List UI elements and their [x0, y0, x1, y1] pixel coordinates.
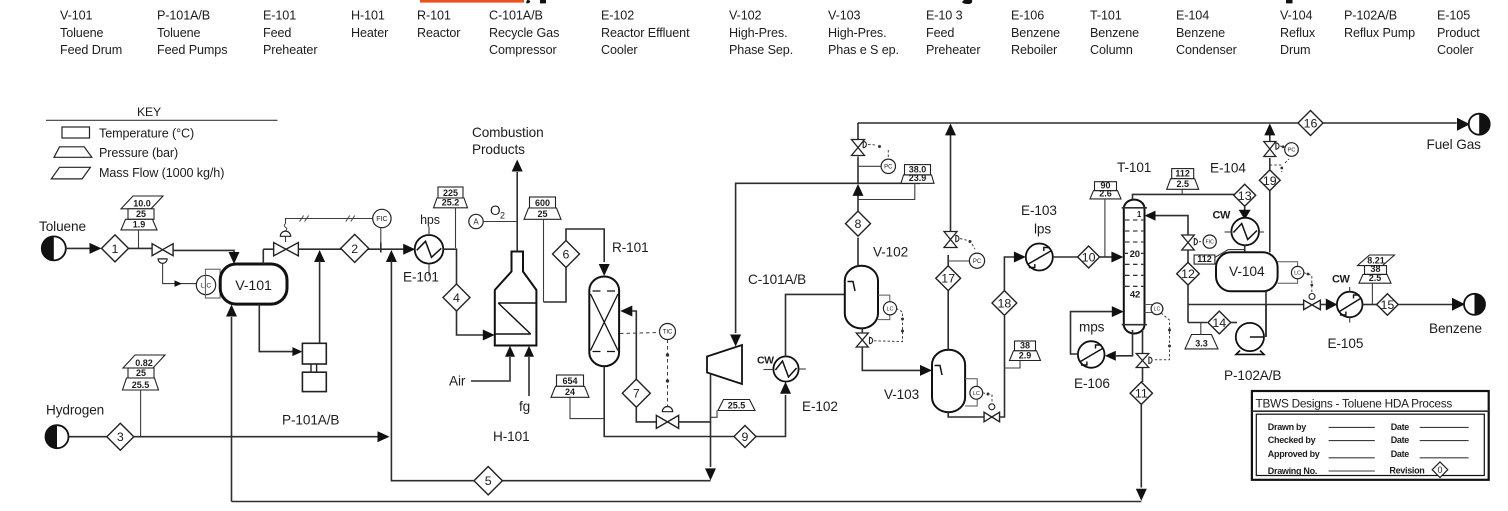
label E-106 — [1074, 376, 1110, 391]
arrow into V-101 bottom — [226, 305, 237, 317]
wire pump discharge P-102 — [1265, 305, 1267, 338]
stream diamond 5 — [474, 467, 502, 495]
svg-text:24: 24 — [565, 387, 575, 397]
svg-text:E-104: E-104 — [1210, 161, 1246, 176]
svg-text:2.5: 2.5 — [1176, 179, 1189, 189]
arrow into E-104 — [1239, 210, 1251, 220]
svg-text:Toluene: Toluene — [157, 26, 201, 40]
wire reflux riser — [1187, 250, 1189, 263]
wire compressor outlet — [710, 374, 712, 468]
svg-text:Reboiler: Reboiler — [1011, 43, 1057, 57]
svg-text:1: 1 — [112, 242, 119, 256]
cropped hyperlink fragment (orange underline) — [420, 0, 524, 3]
svg-text:Preheater: Preheater — [263, 43, 317, 57]
key pressure label — [99, 146, 178, 160]
stream diamond 15 — [1377, 294, 1399, 316]
pump P-101B — [302, 372, 326, 391]
pump P-102A/B — [1236, 323, 1264, 355]
wire stream18 to E-103 — [1004, 257, 1014, 291]
arrow H2 into recycle join — [378, 431, 390, 442]
svg-text:17: 17 — [941, 272, 955, 286]
wire reflux pump suction — [1188, 322, 1207, 324]
wire E-103 outlet — [1053, 256, 1078, 258]
key title — [137, 105, 161, 119]
tray number 20 — [1128, 248, 1141, 260]
svg-text:Recycle Gas: Recycle Gas — [489, 26, 559, 40]
svg-text:Benzene: Benzene — [1429, 321, 1482, 336]
svg-text:E-101: E-101 — [263, 9, 296, 23]
wire E-101 outlet — [443, 249, 456, 284]
svg-text:C-101A/B: C-101A/B — [748, 272, 806, 287]
flag E-101 temperature — [438, 187, 463, 198]
stream diamond 16 — [1298, 111, 1323, 136]
wire T-101 to E-106 — [1116, 330, 1133, 356]
wire recycle stream 5 line — [503, 480, 711, 482]
flag T-101 feed pressure — [1090, 189, 1121, 199]
svg-text:Toluene: Toluene — [60, 26, 104, 40]
svg-text:3: 3 — [117, 430, 124, 444]
wire stream10 to T-101 — [1100, 256, 1113, 258]
stream diamond 4 — [443, 284, 470, 311]
svg-text:Temperature (°C): Temperature (°C) — [99, 127, 194, 141]
flag reflux temperature 112 — [1194, 254, 1215, 264]
arrow into R-101 top — [599, 264, 610, 276]
label Benzene — [1429, 321, 1482, 336]
svg-text:Reflux Pump: Reflux Pump — [1344, 26, 1415, 40]
svg-text:8: 8 — [855, 217, 862, 231]
wire E-102 cw stubs — [764, 368, 806, 371]
wire stack — [516, 172, 518, 252]
actuator V-102 bottoms valve — [870, 337, 873, 343]
svg-text:Reactor: Reactor — [417, 26, 460, 40]
wire reflux up — [1156, 216, 1189, 235]
arrow recycle join — [386, 250, 397, 262]
label V-104 — [1229, 264, 1265, 279]
wire flag38.0 stem — [858, 183, 915, 199]
actuator T101 bottoms valve — [1149, 357, 1152, 363]
flag recycle pressure — [718, 400, 755, 411]
wire PC V102 tap — [858, 165, 881, 167]
wire E-104 cw stubs — [1225, 231, 1264, 233]
signal FIC valve squiggle — [284, 224, 287, 231]
svg-text:CW: CW — [1332, 274, 1351, 286]
svg-text:Date: Date — [1391, 449, 1410, 459]
reactor R-101 top dashes — [593, 290, 616, 292]
svg-text:Preheater: Preheater — [926, 43, 980, 57]
arrow into H-101 — [483, 330, 495, 341]
svg-text:2: 2 — [351, 242, 358, 256]
svg-text:2: 2 — [500, 211, 505, 221]
svg-text:PC: PC — [973, 259, 982, 265]
key temperature label — [99, 127, 194, 141]
wire air line — [471, 357, 510, 381]
arrow into P-101 — [292, 347, 302, 356]
svg-text:V-102: V-102 — [729, 9, 762, 23]
svg-text:Feed: Feed — [263, 26, 291, 40]
svg-text:hps: hps — [420, 213, 440, 227]
exchanger E-101 — [415, 235, 444, 264]
svg-text:V-103: V-103 — [828, 9, 861, 23]
wire pump discharge — [319, 261, 321, 344]
pump connector — [311, 364, 317, 372]
label H-101 — [493, 429, 530, 444]
benzene outlet symbol — [1464, 294, 1485, 315]
svg-text:E-106: E-106 — [1074, 376, 1110, 391]
controller TIC — [660, 324, 676, 340]
svg-text:42: 42 — [1130, 289, 1140, 300]
svg-text:V-103: V-103 — [884, 387, 919, 402]
controller LC V-103 — [970, 386, 983, 399]
svg-text:O: O — [490, 203, 500, 218]
wire overhead line — [1133, 194, 1245, 199]
svg-text:16: 16 — [1304, 116, 1318, 130]
controller LC T-101 — [1151, 303, 1163, 315]
wire A to stack — [483, 221, 517, 223]
wire V103 PC valve up — [950, 135, 952, 232]
label V-103 — [884, 387, 919, 402]
signal LC-103 to valve — [983, 393, 992, 403]
svg-text:10.0: 10.0 — [133, 199, 151, 209]
wire stream9 to E-102 — [756, 395, 786, 437]
title block title — [1256, 397, 1453, 411]
svg-text:14: 14 — [1212, 316, 1226, 330]
svg-text:Product: Product — [1437, 26, 1480, 40]
exchanger E-106 — [1078, 341, 1105, 368]
svg-text:1.9: 1.9 — [133, 220, 146, 230]
flag R-101 inlet temperature — [557, 375, 584, 386]
label E-103 — [1021, 203, 1057, 218]
svg-text:LC: LC — [973, 391, 980, 397]
svg-text:19: 19 — [1263, 174, 1277, 188]
svg-text:Products: Products — [472, 142, 525, 157]
fuel gas outlet symbol — [1469, 114, 1490, 135]
valve V-103 bottoms — [984, 412, 1000, 422]
label Hydrogen — [46, 403, 104, 418]
arrow V104 gas to fuel header — [1264, 123, 1275, 135]
flag stream 1 pressure — [121, 219, 157, 230]
svg-text:Mass Flow (1000 kg/h): Mass Flow (1000 kg/h) — [99, 166, 224, 180]
label E-104 — [1210, 161, 1246, 176]
reactor R-101 — [589, 277, 619, 367]
compressor C-101A/B — [707, 345, 742, 384]
wire V-101 to pump suction — [259, 304, 293, 352]
flag V-102 pressure — [901, 173, 934, 183]
arrow reboil into T-101 — [1112, 306, 1124, 317]
cropped text fragment j-hook — [962, 0, 972, 4]
cropped text fragment stem 1 — [540, 0, 546, 3]
signal line to FIC — [286, 219, 373, 224]
flag overhead pressure — [1167, 179, 1199, 190]
stream diamond 9 — [734, 426, 756, 448]
svg-text:600: 600 — [535, 198, 550, 208]
svg-text:Drawing No.: Drawing No. — [1268, 466, 1317, 476]
wire stream11 down — [1140, 404, 1142, 487]
wire stream17 up — [947, 255, 949, 266]
tray number 1 — [1136, 210, 1143, 219]
flag V-103 temperature — [1015, 341, 1036, 351]
exchanger E-104 — [1231, 218, 1259, 246]
svg-text:5: 5 — [485, 474, 492, 488]
arrow into E-106 — [1105, 351, 1116, 361]
valve T-101 bottoms — [1136, 354, 1149, 368]
svg-text:112: 112 — [1175, 169, 1190, 179]
wire PC valve to fuel header 2 — [1269, 135, 1271, 142]
title block revision — [1389, 466, 1424, 476]
label Air — [449, 374, 466, 389]
wire E-105 outlet — [1363, 304, 1377, 306]
arrow into stream 1 — [90, 243, 102, 254]
signal toluene valve to LIC — [163, 263, 197, 286]
wire flag6 stem — [543, 219, 545, 302]
svg-text:E-101: E-101 — [403, 270, 439, 285]
revision diamond — [1432, 462, 1448, 478]
wire stream6 to R-101 — [566, 229, 604, 262]
wire quench valve to compressor line — [679, 421, 711, 423]
wire stream5 to feed join — [391, 261, 474, 481]
svg-text:CW: CW — [757, 355, 774, 367]
hydrogen feed symbol — [46, 425, 69, 448]
stream diamond 18 — [992, 291, 1017, 316]
wire flag H2 stem — [140, 390, 142, 437]
cropped text fragment comma — [526, 0, 530, 3]
wire E-104 to V-104 — [1244, 245, 1246, 253]
arrow benzene outlet — [1452, 298, 1465, 311]
svg-text:V-101: V-101 — [235, 278, 272, 294]
svg-text:lps: lps — [1034, 222, 1051, 237]
svg-text:H-101: H-101 — [493, 429, 530, 444]
signal TIC to valve — [666, 340, 669, 407]
label cw E-102 — [757, 355, 774, 367]
exchanger E-103 — [1026, 244, 1053, 271]
stream diamond 11 — [1130, 382, 1152, 404]
svg-text:KEY: KEY — [137, 105, 161, 119]
svg-text:E-105: E-105 — [1328, 336, 1364, 351]
svg-text:10: 10 — [1082, 250, 1096, 264]
svg-text:LC: LC — [886, 306, 893, 312]
wire flag112 stem — [1181, 189, 1183, 194]
svg-text:Condenser: Condenser — [1176, 43, 1237, 57]
wire E-101 drain stub — [428, 264, 430, 276]
label R-101 — [612, 240, 649, 255]
svg-text:2.5: 2.5 — [1369, 273, 1382, 283]
arrow pump discharge join — [314, 250, 325, 262]
svg-text:25.2: 25.2 — [442, 198, 460, 208]
svg-text:Air: Air — [449, 374, 466, 389]
label V-102 — [873, 245, 908, 260]
stream diamond 12 — [1177, 262, 1200, 285]
arrow into recycle header — [853, 184, 864, 196]
flag pump suction pressure — [1185, 335, 1218, 349]
svg-text:High-Pres.: High-Pres. — [828, 26, 887, 40]
signal hash marks — [300, 216, 355, 222]
svg-text:15: 15 — [1381, 298, 1395, 312]
svg-text:V-104: V-104 — [1229, 264, 1265, 279]
wire flag3.3 stem — [1200, 323, 1202, 335]
controller FIC reflux — [1203, 235, 1216, 248]
wire R-101 bottom line — [604, 366, 734, 436]
wire stream13 to E-104 — [1244, 206, 1246, 211]
label E-105 — [1328, 336, 1364, 351]
wire coil outlet to stream 6 — [544, 268, 567, 303]
svg-text:Checked by: Checked by — [1268, 435, 1316, 445]
signal tap PC V104 — [1270, 159, 1289, 172]
svg-text:Cooler: Cooler — [601, 43, 638, 57]
svg-text:Benzene: Benzene — [1011, 26, 1060, 40]
svg-text:Feed Pumps: Feed Pumps — [157, 43, 227, 57]
controller LC V-104 — [1291, 266, 1303, 278]
wire V-103 overhead — [947, 291, 949, 350]
wire flag stem E-101 — [455, 208, 457, 248]
actuator stem FIC valve — [285, 236, 287, 242]
wire stream14 to pump — [1231, 322, 1237, 324]
wire PC valve to fuel header — [857, 123, 859, 140]
wire V-102 to V-103 — [862, 328, 921, 370]
svg-text:PC: PC — [884, 164, 893, 170]
wire FIC dropline — [380, 228, 382, 244]
wire V-102 overhead — [857, 238, 859, 266]
svg-text:25: 25 — [136, 209, 146, 219]
svg-text:Phas e S ep.: Phas e S ep. — [828, 43, 899, 57]
vessel V-103 — [932, 350, 965, 413]
controller LIC — [196, 275, 215, 294]
column trays — [1125, 220, 1143, 286]
wire valve to V-101 top — [173, 250, 234, 256]
svg-text:T-101: T-101 — [1117, 160, 1151, 175]
svg-text:Feed Drum: Feed Drum — [60, 43, 122, 57]
actuator benzene valve — [1309, 294, 1315, 300]
wire V-104 vent riser — [1269, 191, 1271, 253]
title block frame — [1252, 391, 1489, 480]
stream diamond 1 — [102, 235, 129, 262]
svg-text:R-101: R-101 — [417, 9, 451, 23]
svg-text:Feed: Feed — [926, 26, 954, 40]
wire toluene recycle bottom line — [232, 501, 1142, 503]
svg-text:H-101: H-101 — [351, 9, 385, 23]
svg-text:4: 4 — [453, 291, 460, 305]
svg-text:25: 25 — [537, 209, 547, 219]
exchanger E-102 — [773, 356, 798, 381]
svg-text:11: 11 — [1135, 387, 1148, 401]
wire recycle header riser — [857, 157, 859, 184]
wire flag112b leader — [1215, 250, 1244, 258]
svg-text:Drawn by: Drawn by — [1268, 422, 1306, 432]
bracket LC V-104 — [1278, 262, 1298, 284]
svg-text:E-102: E-102 — [802, 399, 838, 414]
stream diamond 14 — [1208, 311, 1231, 334]
label mps — [1079, 320, 1105, 335]
svg-text:V-102: V-102 — [873, 245, 908, 260]
wire hydrogen feed — [69, 436, 107, 438]
svg-text:fg: fg — [519, 399, 530, 414]
svg-text:0.82: 0.82 — [135, 358, 153, 368]
arrow reflux into T-101 — [1145, 211, 1156, 221]
flag T-101 feed temperature — [1095, 181, 1117, 191]
arrow feed into T-101 — [1111, 252, 1123, 263]
svg-text:LC: LC — [1154, 307, 1161, 313]
wire V-101 top riser — [262, 249, 264, 264]
label fg — [519, 399, 530, 414]
label Fuel Gas — [1427, 137, 1482, 152]
flag stream6 pressure — [524, 208, 561, 219]
wire flag654 stem — [570, 397, 604, 418]
svg-text:P-102A/B: P-102A/B — [1224, 368, 1281, 383]
wire flag1 stem — [138, 230, 140, 249]
key mass-flow symbol — [51, 167, 90, 179]
actuator reflux valve — [1194, 238, 1197, 244]
valve quench — [656, 415, 678, 428]
label C-101A/B — [748, 272, 806, 287]
wire main feed line — [298, 248, 405, 250]
svg-text:2.9: 2.9 — [1019, 350, 1032, 360]
svg-text:LC: LC — [1294, 271, 1301, 277]
label T-101 — [1117, 160, 1151, 175]
key mass-flow label — [99, 166, 224, 180]
flag stream 1 temperature — [128, 209, 154, 220]
svg-text:Hydrogen: Hydrogen — [46, 403, 104, 418]
signal LC to bottoms valve — [874, 309, 904, 342]
wire flag25.5 stem — [711, 411, 717, 418]
label CW E-104 — [1213, 210, 1232, 222]
arrow into compressor — [730, 335, 741, 347]
controller PC V102 — [881, 159, 895, 173]
valve FIC control — [274, 243, 299, 256]
svg-text:Phase Sep.: Phase Sep. — [729, 43, 793, 57]
flag V-103 pressure — [1010, 350, 1041, 360]
wire hydrogen line — [134, 436, 379, 438]
arrow into V-103 — [920, 365, 932, 376]
flag benzene pressure — [1359, 273, 1391, 283]
stream diamond 8 — [846, 211, 871, 236]
svg-text:225: 225 — [443, 188, 458, 198]
valve V-104 PC — [1264, 142, 1276, 157]
svg-text:E-106: E-106 — [1011, 9, 1044, 23]
svg-text:mps: mps — [1079, 320, 1105, 335]
flag stream 1 mass flow — [121, 196, 163, 209]
svg-text:R-101: R-101 — [612, 240, 649, 255]
svg-text:25: 25 — [136, 368, 146, 378]
pump P-101A — [302, 343, 326, 364]
svg-text:9: 9 — [742, 430, 749, 444]
svg-text:Compressor: Compressor — [489, 43, 557, 57]
arrow recycle down — [705, 468, 716, 480]
column T-101 — [1124, 200, 1145, 334]
wire E-102 to V-102 — [786, 294, 845, 356]
svg-text:7: 7 — [633, 387, 640, 401]
arrow into E-103 — [1014, 252, 1026, 263]
vessel V-102 — [845, 266, 878, 329]
arrow fg into furnace — [524, 346, 534, 357]
label V-101 — [235, 278, 272, 294]
svg-text:18: 18 — [998, 296, 1012, 310]
wire benzene outlet line — [1398, 304, 1452, 306]
key underline — [46, 119, 278, 121]
wire fuel gas header — [858, 122, 1457, 124]
label O2 — [490, 203, 505, 221]
vessel V-101 — [220, 264, 287, 304]
svg-text:FIC: FIC — [1206, 239, 1215, 245]
wire product line — [1188, 304, 1304, 306]
svg-text:E-104: E-104 — [1176, 9, 1209, 23]
signal LC104 to valve — [1304, 273, 1313, 293]
cropped text fragment stem 2 — [1286, 0, 1293, 3]
V-102 deflector — [848, 282, 856, 292]
wire riser to control valve — [263, 248, 273, 250]
actuator V-102 PC valve — [863, 141, 866, 147]
wire stream7 to valve — [636, 407, 656, 422]
flag hydrogen mass flow — [123, 355, 165, 368]
svg-text:Cooler: Cooler — [1437, 43, 1474, 57]
svg-text:13: 13 — [1238, 189, 1252, 203]
